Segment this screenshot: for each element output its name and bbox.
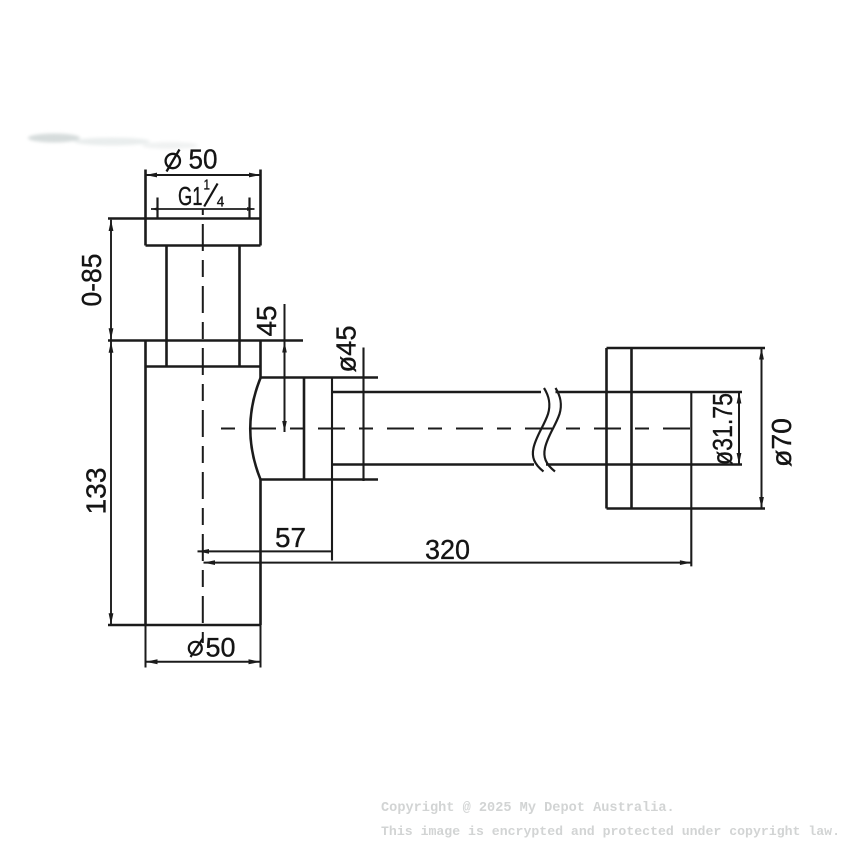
vertical centerline [202, 209, 204, 643]
connector face / 57 extension [331, 378, 333, 561]
outlet arc [250, 378, 260, 480]
svg-text:ø45: ø45 [330, 326, 361, 373]
arrow 57 left [198, 549, 210, 554]
svg-text:50: 50 [206, 633, 236, 663]
dia symbol of top dia50 label [166, 150, 180, 172]
svg-text:57: 57 [275, 522, 306, 553]
body left wall [144, 341, 147, 626]
arrow dia50 top right [249, 173, 261, 178]
svg-text:1: 1 [204, 177, 211, 194]
arrow 0-85 top [109, 220, 114, 231]
dia45 extension line [362, 348, 364, 482]
svg-text:ø70: ø70 [766, 418, 797, 467]
body right wall [259, 341, 262, 626]
body collar line [146, 365, 261, 368]
body bottom line [108, 624, 261, 627]
arrow G dim right [247, 207, 255, 211]
arrow dia31.75 top [737, 392, 742, 404]
arrow 45 top [282, 342, 287, 353]
arrow dia50 bottom left [146, 659, 158, 664]
horizontal centerline [221, 428, 700, 430]
svg-text:ø31.75: ø31.75 [707, 393, 738, 465]
G thread dimension line [151, 208, 255, 210]
dia50 bottom dimension line [146, 661, 261, 663]
svg-text:This image is encrypted and pr: This image is encrypted and protected un… [381, 824, 840, 839]
320 dimension line [204, 562, 692, 564]
arrow 133 top [109, 342, 114, 353]
wall flange [607, 348, 766, 509]
pipe top wall [332, 391, 742, 394]
G thread tick left [156, 198, 158, 220]
G fraction slash [204, 184, 217, 207]
arrow 45 bottom [282, 421, 287, 432]
svg-text:Copyright @ 2025 My Depot Aust: Copyright @ 2025 My Depot Australia. [381, 801, 675, 816]
svg-text:45: 45 [251, 306, 282, 337]
arrow G dim left [151, 207, 159, 211]
dia50 bottom extension left [145, 625, 147, 668]
dia50 bottom extension right [260, 625, 262, 668]
arrow dia31.75 bottom [737, 453, 742, 465]
svg-text:50: 50 [189, 144, 218, 175]
arrow 0-85 bottom [109, 328, 114, 339]
watermark smudge [28, 134, 198, 150]
pipe break curve 1 [533, 388, 550, 472]
45 dimension line [284, 304, 286, 432]
svg-text:G1: G1 [178, 181, 203, 211]
dia symbol of bottom dia50 label [189, 639, 203, 658]
arrow dia50 bottom right [249, 659, 261, 664]
dia70 dimension line [761, 348, 763, 509]
G thread tick right [248, 198, 250, 220]
arrow dia50 top left [146, 173, 158, 178]
svg-text:0-85: 0-85 [76, 254, 107, 307]
outlet connector [261, 378, 379, 480]
pipe break curve 2 [544, 388, 561, 472]
133 dimension line [110, 342, 112, 625]
pipe end / 320 extension [690, 392, 692, 566]
body top line [108, 339, 303, 342]
pipe bottom wall [332, 463, 742, 466]
arrow 133 bottom [109, 613, 114, 624]
svg-text:320: 320 [425, 534, 470, 565]
svg-text:4: 4 [217, 193, 225, 210]
arrow dia70 top [759, 348, 764, 360]
dia50 top dimension line [146, 174, 261, 176]
svg-text:133: 133 [80, 468, 111, 515]
0-85 dimension line [110, 220, 112, 340]
arrow 320 left [204, 560, 216, 565]
arrow dia70 bottom [759, 497, 764, 509]
arrow 320 right [680, 560, 692, 565]
57 dimension line [198, 550, 332, 552]
dia31.75 dimension line [738, 392, 740, 465]
neck tube [167, 246, 240, 367]
top flange outline [108, 170, 261, 246]
